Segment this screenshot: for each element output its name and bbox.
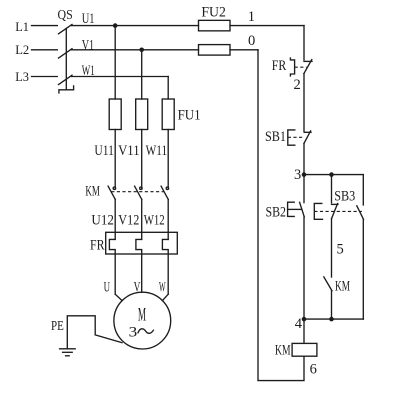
svg-text:L1: L1 bbox=[15, 19, 29, 34]
svg-text:0: 0 bbox=[248, 33, 255, 49]
svg-text:FR: FR bbox=[90, 237, 105, 254]
svg-text:5: 5 bbox=[337, 242, 344, 258]
svg-text:L2: L2 bbox=[15, 42, 29, 57]
svg-text:U11: U11 bbox=[94, 142, 114, 159]
svg-text:QS: QS bbox=[58, 8, 73, 23]
svg-text:FU1: FU1 bbox=[178, 107, 201, 124]
svg-text:L3: L3 bbox=[15, 69, 29, 84]
svg-text:KM: KM bbox=[275, 342, 291, 359]
svg-text:3: 3 bbox=[294, 167, 301, 183]
svg-text:KM: KM bbox=[85, 182, 100, 199]
svg-text:SB3: SB3 bbox=[334, 188, 355, 205]
svg-text:M: M bbox=[138, 305, 146, 326]
svg-text:W11: W11 bbox=[146, 142, 168, 159]
svg-text:W12: W12 bbox=[144, 212, 165, 229]
svg-text:3: 3 bbox=[129, 325, 138, 341]
svg-text:U12: U12 bbox=[91, 212, 114, 229]
svg-text:SB1: SB1 bbox=[265, 128, 286, 145]
svg-text:V11: V11 bbox=[118, 142, 140, 159]
svg-text:U: U bbox=[104, 280, 110, 296]
svg-text:4: 4 bbox=[295, 316, 303, 332]
svg-text:FR: FR bbox=[272, 57, 287, 74]
svg-text:U1: U1 bbox=[82, 11, 95, 27]
svg-text:PE: PE bbox=[51, 318, 64, 333]
svg-text:V12: V12 bbox=[118, 212, 139, 229]
svg-text:V1: V1 bbox=[82, 37, 94, 53]
svg-text:6: 6 bbox=[310, 361, 317, 377]
svg-text:KM: KM bbox=[335, 278, 350, 295]
svg-text:2: 2 bbox=[294, 77, 301, 93]
svg-text:1: 1 bbox=[248, 9, 255, 25]
svg-text:FU2: FU2 bbox=[201, 3, 226, 20]
svg-text:SB2: SB2 bbox=[266, 203, 287, 220]
svg-text:W: W bbox=[159, 280, 166, 296]
